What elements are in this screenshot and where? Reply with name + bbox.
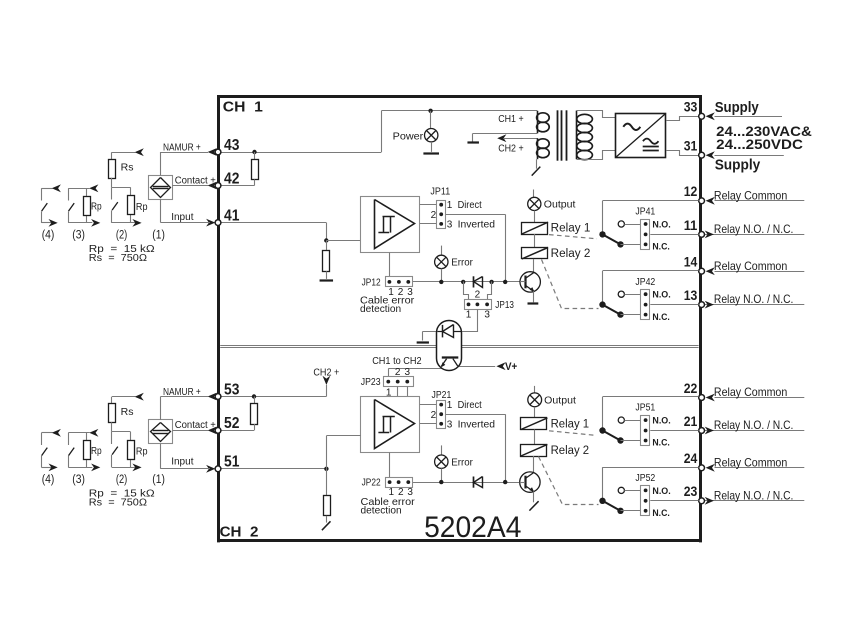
svg-text:N.C.: N.C.: [652, 312, 669, 323]
svg-text:Relay Common: Relay Common: [714, 385, 787, 399]
svg-text:52: 52: [224, 415, 239, 432]
svg-text:(2): (2): [116, 474, 128, 486]
svg-text:5202A4: 5202A4: [424, 511, 521, 544]
svg-text:Inverted: Inverted: [458, 418, 496, 430]
svg-text:Direct: Direct: [458, 399, 482, 411]
svg-text:Power: Power: [393, 130, 424, 142]
svg-text:CH1 +: CH1 +: [498, 114, 524, 125]
svg-text:(4): (4): [42, 230, 55, 242]
svg-text:Rs = 750Ω: Rs = 750Ω: [89, 497, 147, 509]
svg-text:detection: detection: [361, 504, 402, 516]
svg-text:13: 13: [684, 287, 698, 303]
svg-text:JP11: JP11: [430, 186, 450, 197]
svg-text:(1): (1): [152, 230, 165, 242]
svg-text:N.C.: N.C.: [652, 508, 669, 519]
svg-text:(2): (2): [116, 230, 128, 242]
svg-text:Relay Common: Relay Common: [714, 188, 787, 202]
svg-text:Contact +: Contact +: [175, 175, 216, 186]
svg-text:(1): (1): [152, 474, 165, 486]
svg-text:21: 21: [684, 413, 698, 429]
svg-text:CH2 +: CH2 +: [313, 367, 339, 379]
svg-text:JP22: JP22: [362, 478, 381, 489]
svg-text:Input: Input: [171, 211, 193, 223]
svg-text:42: 42: [224, 170, 239, 187]
svg-text:31: 31: [684, 138, 698, 154]
svg-text:53: 53: [224, 381, 240, 398]
svg-text:12: 12: [684, 183, 698, 199]
svg-text:Rp: Rp: [91, 445, 102, 457]
svg-text:14: 14: [684, 254, 698, 270]
svg-text:43: 43: [224, 137, 240, 154]
svg-text:51: 51: [224, 454, 240, 471]
svg-text:JP13: JP13: [495, 300, 514, 311]
svg-text:Output: Output: [544, 395, 576, 407]
svg-text:CH 1: CH 1: [223, 99, 263, 115]
svg-text:Rs: Rs: [121, 161, 134, 173]
svg-text:Relay 1: Relay 1: [551, 223, 591, 235]
svg-text:(3): (3): [72, 474, 85, 486]
svg-text:CH2 +: CH2 +: [498, 144, 524, 155]
svg-text:Relay 2: Relay 2: [551, 445, 590, 457]
svg-text:1: 1: [447, 400, 453, 411]
svg-text:Input: Input: [171, 456, 193, 468]
svg-text:2: 2: [475, 290, 481, 301]
svg-text:Rs = 750Ω: Rs = 750Ω: [89, 252, 147, 264]
svg-text:JP23: JP23: [361, 377, 381, 388]
svg-text:Relay N.O. / N.C.: Relay N.O. / N.C.: [714, 418, 794, 432]
svg-text:Relay Common: Relay Common: [714, 259, 787, 273]
svg-text:2: 2: [431, 410, 437, 421]
svg-text:Rp: Rp: [91, 201, 102, 213]
svg-text:Error: Error: [451, 456, 473, 468]
svg-text:Supply: Supply: [715, 158, 761, 174]
svg-text:NAMUR +: NAMUR +: [163, 142, 201, 153]
svg-text:N.C.: N.C.: [652, 438, 669, 449]
svg-text:CH1 to CH2: CH1 to CH2: [372, 356, 422, 367]
svg-text:Relay N.O. / N.C.: Relay N.O. / N.C.: [714, 222, 794, 236]
svg-text:Relay 1: Relay 1: [551, 418, 590, 430]
svg-text:Relay N.O. / N.C.: Relay N.O. / N.C.: [714, 488, 794, 502]
svg-text:Rp: Rp: [136, 446, 148, 458]
svg-text:22: 22: [684, 380, 698, 396]
svg-text:2: 2: [431, 210, 437, 221]
svg-text:Direct: Direct: [458, 199, 482, 211]
svg-text:detection: detection: [360, 303, 401, 315]
svg-text:Error: Error: [451, 257, 473, 269]
svg-text:(3): (3): [72, 230, 85, 242]
svg-text:23: 23: [684, 483, 698, 499]
svg-text:1: 1: [447, 200, 453, 211]
svg-text:Rp: Rp: [136, 201, 148, 213]
svg-text:41: 41: [224, 207, 240, 224]
svg-text:3: 3: [447, 419, 453, 430]
svg-text:Contact +: Contact +: [175, 420, 216, 431]
svg-text:3: 3: [405, 367, 411, 378]
svg-text:Rs: Rs: [121, 406, 134, 418]
svg-text:Supply: Supply: [715, 100, 759, 116]
svg-text:3: 3: [447, 220, 453, 231]
svg-text:N.O.: N.O.: [652, 486, 670, 497]
svg-text:JP52: JP52: [635, 473, 655, 484]
svg-text:24: 24: [684, 450, 698, 466]
svg-text:N.C.: N.C.: [652, 242, 669, 253]
svg-text:Relay 2: Relay 2: [551, 248, 591, 260]
svg-text:N.O.: N.O.: [652, 220, 670, 231]
svg-text:JP42: JP42: [635, 277, 655, 288]
svg-text:Inverted: Inverted: [458, 219, 496, 231]
svg-text:JP12: JP12: [362, 277, 381, 288]
svg-text:V+: V+: [505, 361, 517, 373]
svg-text:1: 1: [466, 310, 472, 321]
svg-text:N.O.: N.O.: [652, 416, 670, 427]
svg-text:CH 2: CH 2: [220, 524, 259, 540]
svg-text:JP41: JP41: [635, 207, 655, 218]
svg-text:33: 33: [684, 99, 698, 115]
svg-text:JP51: JP51: [635, 403, 655, 414]
svg-text:3: 3: [484, 310, 490, 321]
svg-text:2: 2: [395, 367, 401, 378]
svg-text:24...250VDC: 24...250VDC: [716, 136, 803, 152]
svg-text:Relay N.O. / N.C.: Relay N.O. / N.C.: [714, 292, 794, 306]
svg-text:Output: Output: [544, 199, 576, 211]
svg-text:N.O.: N.O.: [652, 290, 670, 301]
svg-text:(4): (4): [42, 474, 55, 486]
svg-text:11: 11: [684, 217, 698, 233]
svg-text:Relay Common: Relay Common: [714, 455, 787, 469]
